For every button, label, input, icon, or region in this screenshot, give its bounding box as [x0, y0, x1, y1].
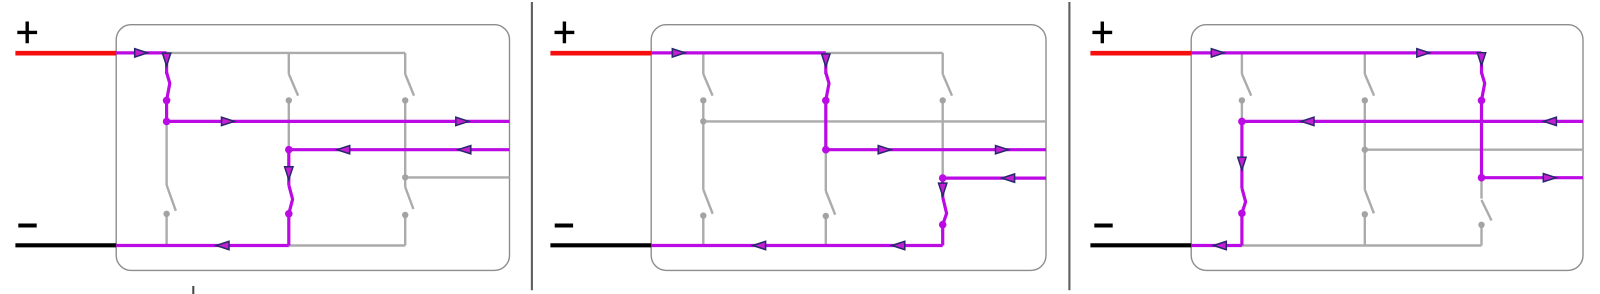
P1 switch S5 open blade — [405, 74, 414, 96]
P3 switch S1 top stub — [1241, 53, 1243, 74]
panel 2 DC+ terminal symbol — [555, 22, 575, 44]
P2 current arrow bottom bus #1 — [892, 241, 905, 249]
P1 switch S1 closed blade — [167, 73, 170, 101]
P3 switch S2 contact dot (active) — [1238, 210, 1246, 218]
P3 bottom DC bus (idle section) — [1242, 244, 1482, 246]
P3 current arrow phase C — [1543, 174, 1556, 182]
P2 bottom bus return to - terminal — [651, 244, 943, 247]
panel 3 DC+ red feeder wire — [1090, 51, 1191, 56]
P2 switch S6 bottom stub (conducting) — [941, 225, 944, 246]
P3 phase A return line (conducting in) — [1242, 120, 1583, 123]
P1 switch S5 top stub — [404, 53, 406, 74]
P3 node B junction dot — [1362, 147, 1368, 153]
panel divider 1 — [531, 2, 533, 290]
P1 switch S4 open blade — [167, 185, 176, 211]
P1 current arrow phase B #2 — [458, 146, 471, 154]
P1 switch S4b contact dot (active) — [285, 210, 293, 218]
P2 phase B output line (conducting out) — [826, 148, 1046, 151]
panel 1 DC- terminal symbol — [18, 223, 36, 227]
P1 bottom DC bus (idle section) — [289, 244, 405, 246]
cropped cursor tick below panel 1 — [192, 286, 194, 294]
P1 switch S3 contact dot — [286, 97, 292, 103]
P3 switch S3 contact dot — [1362, 97, 1368, 103]
panel 3 DC- terminal symbol — [1094, 223, 1112, 227]
panel 2 converter box — [651, 25, 1046, 271]
P3 phase C output line (conducting out) — [1482, 176, 1584, 179]
P2 switch S6 closed blade — [943, 197, 947, 225]
P1 current arrow phase A #1 — [222, 117, 235, 125]
P1 switch S6 bottom stub — [404, 215, 406, 246]
P2 switch S5 open blade — [943, 74, 952, 96]
P2 leg 1 wire node A to switch S2 — [702, 121, 704, 189]
P2 current arrow through S3 — [822, 54, 830, 67]
P2 current arrow on + entry — [672, 49, 685, 57]
P2 leg 3 wire S5-contact to node C — [942, 100, 944, 178]
P1 leg 1 wire to node A (conducting) — [165, 100, 168, 121]
P3 switch S2 bottom stub (conducting) — [1240, 213, 1243, 245]
P3 current arrow bottom bus — [1214, 241, 1227, 249]
P2 leg 3 wire node C to switch S6 (conducting) — [941, 178, 944, 197]
P3 bottom bus return to - terminal — [1191, 244, 1242, 247]
P2 switch S3 top stub (conducting) — [824, 53, 827, 74]
P3 switch S5 contact dot (active) — [1478, 97, 1486, 105]
P3 current arrow through S5 — [1477, 53, 1485, 66]
P2 switch S3 contact dot (active) — [822, 97, 830, 105]
P3 leg 3 wire to node C (conducting) — [1480, 100, 1483, 177]
P1 switch S6 contact dot — [402, 212, 408, 218]
P2 switch S1 open blade — [703, 74, 712, 96]
P1 current arrow through S1 — [162, 53, 170, 66]
P3 switch S4 contact dot — [1362, 211, 1368, 217]
panel 3 DC- black feeder wire — [1090, 243, 1191, 247]
P3 switch S3 open blade — [1365, 74, 1374, 96]
P3 current arrow top bus #2 — [1417, 49, 1430, 57]
P3 node A junction dot (active) — [1238, 118, 1246, 126]
P1 switch S4 contact dot — [163, 211, 169, 217]
P2 node C junction dot (active) — [939, 174, 947, 182]
P2 top DC bus (idle section) — [826, 52, 943, 54]
P1 leg 3 wire node C to switch S6 — [404, 177, 406, 187]
P2 phase C return line (conducting in) — [943, 177, 1046, 180]
P3 current arrow through S2 — [1238, 157, 1246, 170]
P2 leg 2 wire to node B (conducting) — [824, 100, 827, 149]
P3 phase B output line (idle) — [1365, 148, 1583, 150]
P3 leg 3 wire node C to switch S6 — [1480, 178, 1482, 199]
panel 1 DC- black feeder wire — [15, 243, 116, 247]
P3 leg 1 wire S1-contact to node A — [1241, 100, 1243, 121]
P1 current arrow phase A #2 — [456, 117, 469, 125]
P3 current arrow phase A #1 — [1301, 117, 1314, 125]
P1 switch S4b bottom stub (conducting) — [287, 214, 290, 246]
P3 switch S4 bottom stub — [1364, 214, 1366, 245]
P1 switch S3 top stub — [288, 53, 290, 74]
P3 switch S1 contact dot — [1239, 97, 1245, 103]
P1 node B junction dot (active) — [285, 146, 293, 154]
P1 phase C output line (idle) — [405, 176, 509, 178]
P3 switch S6 contact dot — [1478, 222, 1484, 228]
P2 current arrow phase C — [1002, 174, 1015, 182]
P2 node A junction dot — [700, 118, 706, 124]
P2 current arrow through S6 — [939, 183, 947, 196]
P2 current arrow phase B #1 — [878, 146, 891, 154]
panel 3 converter box — [1191, 25, 1583, 271]
P2 switch S4 contact dot — [823, 213, 829, 219]
P1 switch S4b closed blade — [289, 185, 293, 214]
P3 node C junction dot (active) — [1478, 174, 1486, 182]
P1 top DC bus (idle section) — [167, 52, 406, 54]
P2 leg 1 wire S1-contact to node A — [702, 100, 704, 121]
P1 node A junction dot (active) — [163, 118, 171, 126]
P3 switch S4 open blade — [1365, 190, 1374, 214]
P3 switch S1 open blade — [1242, 74, 1251, 96]
P3 current path: + entry along top bus — [1191, 51, 1481, 54]
P2 switch S2 open blade — [703, 190, 712, 214]
P3 switch S5 top stub (conducting) — [1480, 53, 1483, 74]
P2 current path: + entry along top bus — [651, 51, 826, 54]
P1 current arrow through S4b — [285, 167, 293, 180]
P2 current arrow phase B #2 — [996, 146, 1009, 154]
P1 current path: + entry wire — [116, 51, 166, 54]
P2 current arrow bottom bus #2 — [753, 241, 766, 249]
P2 switch S4 bottom stub — [825, 216, 827, 246]
P1 leg 1 wire node A to switch S4 — [165, 121, 167, 185]
P1 switch S6 open blade — [405, 187, 413, 209]
P3 switch S2 closed blade — [1242, 188, 1246, 213]
panel divider 2 — [1068, 2, 1070, 290]
P2 switch S5 top stub — [942, 53, 944, 74]
P1 current arrow on + entry — [135, 49, 148, 57]
P3 leg 1 wire node A to switch S2 (conducting) — [1240, 121, 1243, 188]
P1 leg 3 wire S5-contact to node C — [404, 100, 406, 177]
panel 3 DC+ terminal symbol — [1092, 22, 1112, 44]
P3 switch S6 bottom stub — [1480, 225, 1482, 246]
P1 switch S1 contact dot (active) — [163, 97, 171, 105]
panel 1 DC+ red feeder wire — [15, 51, 116, 56]
P2 switch S1 top stub — [702, 53, 704, 74]
P2 phase A output line (idle) — [703, 120, 1046, 122]
P2 node B junction dot (active) — [822, 146, 830, 154]
P1 switch S4 bottom stub — [165, 214, 167, 246]
P1 switch S3 open blade — [289, 74, 298, 96]
P1 switch S5 contact dot — [402, 97, 408, 103]
P1 node C junction dot — [402, 174, 408, 180]
P1 leg 2 wire node B to switch S4b (conducting) — [287, 150, 290, 185]
P1 phase B return line (conducting in) — [289, 148, 510, 151]
P1 bottom bus return to - terminal — [116, 244, 289, 247]
P3 leg 2 wire S3-contact to node B — [1364, 100, 1366, 149]
P2 switch S1 contact dot — [700, 97, 706, 103]
P1 phase A output line (conducting out) — [167, 120, 510, 123]
P3 current arrow top bus #1 — [1211, 49, 1224, 57]
P1 current arrow bottom bus — [216, 241, 229, 249]
P3 switch S5 closed blade — [1482, 73, 1485, 101]
P3 current arrow phase A #2 — [1544, 117, 1557, 125]
P3 leg 2 wire node B to switch S4 — [1364, 150, 1366, 190]
panel 2 DC- terminal symbol — [555, 223, 573, 227]
panel 1 converter box — [116, 25, 509, 271]
P2 switch S4 open blade — [826, 191, 835, 215]
panel 2 DC+ red feeder wire — [550, 51, 651, 56]
panel 2 DC- black feeder wire — [550, 243, 651, 247]
P2 leg 2 wire node B to switch S4 — [825, 150, 827, 191]
P3 switch S3 top stub — [1364, 53, 1366, 74]
panel 1 DC+ terminal symbol — [17, 22, 37, 44]
P1 current arrow phase B #1 — [337, 146, 350, 154]
P2 switch S2 contact dot — [700, 212, 706, 218]
P2 switch S3 closed blade — [826, 73, 829, 101]
P1 leg 2 wire S3-contact to node B — [288, 100, 290, 149]
P2 switch S2 bottom stub — [702, 216, 704, 246]
P1 switch S1 top stub (conducting) — [165, 53, 168, 74]
P2 switch S6 contact dot (active) — [939, 221, 947, 229]
P3 switch S6 open blade — [1482, 200, 1492, 221]
P2 switch S5 contact dot — [940, 97, 946, 103]
